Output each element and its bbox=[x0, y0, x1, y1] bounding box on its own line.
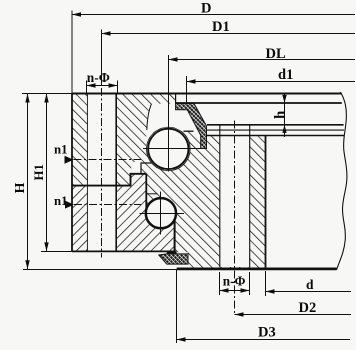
bottom seal bbox=[159, 254, 188, 264]
inner ring hole centerline / D2 extension bbox=[234, 121, 236, 315]
small ball center lines bbox=[140, 213, 185, 215]
raceway wall lower bbox=[174, 214, 176, 255]
dimension DL bbox=[168, 55, 170, 60]
dimension H1 bbox=[41, 251, 72, 253]
ring split seam bbox=[72, 174, 146, 186]
pocket left edge curve bbox=[147, 104, 152, 130]
top seal bbox=[176, 104, 207, 149]
svg-text:H: H bbox=[12, 182, 27, 193]
outer ring top-right corner edge bbox=[175, 94, 177, 105]
outer ring left edge bbox=[71, 94, 73, 252]
svg-text:n-Φ: n-Φ bbox=[87, 70, 110, 85]
dimension H bbox=[22, 93, 72, 95]
break wavy line bbox=[337, 92, 347, 270]
grease hole centerline n1 upper bbox=[74, 159, 142, 161]
small ball raceway clearance circle bbox=[145, 197, 177, 229]
dimension D2 bbox=[235, 314, 352, 316]
plate band line 2 bbox=[207, 129, 344, 131]
outer ring hole centerline bbox=[101, 88, 103, 258]
inner ring bore edge bbox=[265, 136, 267, 268]
big ball center lines bbox=[143, 148, 201, 150]
lower ring lip above seal bbox=[167, 251, 177, 253]
outer ring bottom edge bbox=[72, 250, 175, 252]
dimension h bbox=[284, 93, 286, 138]
small raceway shoulder line bbox=[146, 193, 157, 195]
top surface line bbox=[72, 93, 341, 95]
outer ring lower piece with opposite hatch bbox=[72, 174, 175, 252]
small ball bbox=[146, 198, 176, 228]
white right of inner ring bore bbox=[266, 136, 336, 267]
svg-text:d: d bbox=[306, 277, 314, 292]
inner ring raceway shoulder near seal bbox=[184, 130, 194, 132]
inner ring bolt hole (white) bbox=[220, 136, 249, 267]
dimension d bbox=[265, 271, 267, 296]
seam step bbox=[141, 163, 152, 174]
upper plate lower line bbox=[176, 102, 342, 104]
dimension D3 bbox=[176, 269, 178, 343]
outer ring bolt hole (white) bbox=[88, 94, 116, 251]
raceway wall upper bbox=[145, 174, 147, 212]
big ball raceway clearance circle bbox=[147, 127, 191, 171]
svg-text:n-Φ: n-Φ bbox=[223, 273, 246, 288]
svg-text:h: h bbox=[272, 110, 288, 119]
n1 arrow upper bbox=[65, 156, 74, 164]
svg-text:n1: n1 bbox=[54, 194, 68, 208]
svg-text:d1: d1 bbox=[278, 67, 293, 83]
svg-text:H1: H1 bbox=[32, 164, 46, 180]
n1 arrow lower bbox=[65, 201, 74, 209]
plate band line 1 bbox=[207, 124, 344, 126]
bottom plate line thick bbox=[177, 268, 337, 271]
svg-text:DL: DL bbox=[266, 46, 286, 62]
upper raceway pocket (white) bbox=[146, 104, 200, 148]
inner ring top line bbox=[207, 135, 345, 137]
dimension n-PHI top bbox=[86, 81, 88, 94]
dimension D bbox=[71, 11, 73, 94]
svg-text:D3: D3 bbox=[258, 325, 276, 341]
seam notch white bbox=[131, 162, 140, 173]
big ball bbox=[148, 129, 188, 169]
dimension n-PHI bottom bbox=[219, 272, 221, 295]
outer ring bolt hole edges bbox=[86, 94, 88, 252]
grease hole centerline n1 lower bbox=[74, 204, 141, 206]
svg-text:D2: D2 bbox=[299, 300, 317, 316]
svg-text:n1: n1 bbox=[54, 143, 68, 157]
bottom ext line thin bbox=[23, 269, 177, 271]
svg-text:D: D bbox=[201, 1, 211, 17]
bearing section hatched block (outer ring + inner ring) bbox=[72, 94, 266, 268]
dimension D1 bbox=[101, 30, 103, 86]
dimension d1 bbox=[186, 76, 188, 104]
svg-text:D1: D1 bbox=[212, 19, 230, 35]
inner ring bolt hole edges bbox=[219, 125, 221, 267]
